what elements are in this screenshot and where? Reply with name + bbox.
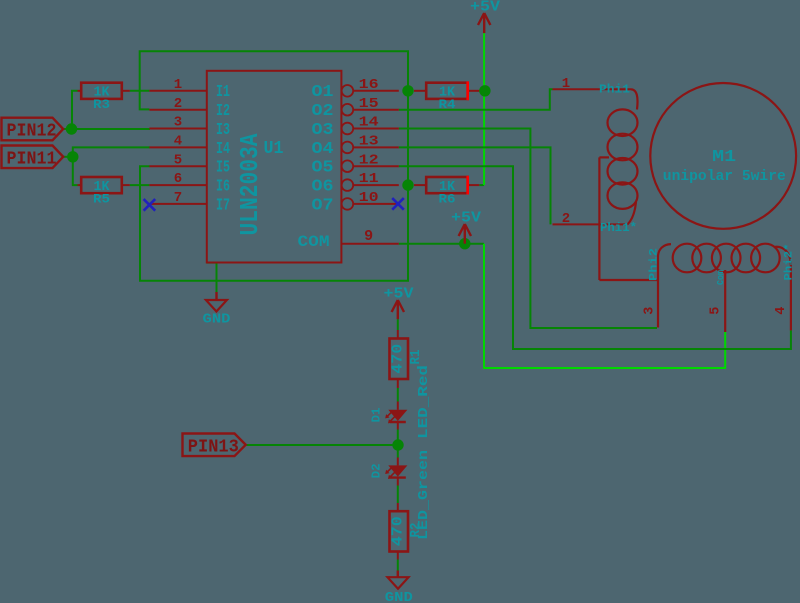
svg-text:470: 470 bbox=[391, 516, 407, 546]
svg-text:COM: COM bbox=[298, 233, 330, 251]
ground at bottom of LED chain bbox=[385, 571, 413, 603]
svg-text:Com: Com bbox=[716, 269, 726, 285]
svg-text:unipolar 5wire: unipolar 5wire bbox=[663, 169, 786, 185]
svg-text:O2: O2 bbox=[312, 102, 334, 121]
svg-text:1: 1 bbox=[562, 76, 570, 92]
global label PIN13 bbox=[183, 434, 246, 458]
svg-text:3: 3 bbox=[642, 307, 657, 315]
svg-text:PIN12: PIN12 bbox=[7, 122, 57, 142]
svg-text:2: 2 bbox=[562, 211, 570, 227]
power +5V at LED chain bbox=[384, 286, 414, 320]
svg-text:10: 10 bbox=[359, 190, 379, 206]
svg-text:I5: I5 bbox=[216, 159, 230, 178]
svg-text:LED_Red: LED_Red bbox=[416, 365, 432, 439]
junction node at PIN12 / pin3 bbox=[66, 123, 77, 134]
wire: bright +5V vertical from top power symbol through R4 junction to R6 bbox=[483, 33, 485, 185]
U1 COM pin 9 bbox=[341, 228, 398, 245]
no-connect X on pin 10 bbox=[392, 198, 404, 210]
junction node at O6 row left of R6 bbox=[402, 179, 413, 190]
motor coil A pin 2 bbox=[553, 211, 638, 235]
svg-text:PIN11: PIN11 bbox=[7, 149, 57, 169]
svg-text:16: 16 bbox=[359, 77, 379, 93]
power +5V top bbox=[470, 0, 500, 33]
wire: R5 right to pin6 bbox=[130, 184, 150, 186]
wire: R6 right stub to +5V column bbox=[479, 184, 484, 186]
motor coil A (vertical) with center tap bbox=[599, 89, 637, 280]
svg-text:1: 1 bbox=[174, 77, 182, 93]
svg-text:O6: O6 bbox=[312, 178, 334, 197]
svg-text:470: 470 bbox=[391, 344, 407, 374]
svg-text:GND: GND bbox=[385, 590, 413, 603]
wire: LED chain vertical segments bbox=[397, 319, 399, 570]
wire: R3 right to pin1 bbox=[130, 90, 150, 92]
resistor R4 1K bbox=[414, 81, 479, 112]
wire: PIN13 to LED junction bbox=[247, 444, 397, 446]
power +5V at COM bbox=[451, 210, 481, 244]
motor coil B (horizontal) with center tap, connecting from coil A bottom bbox=[599, 244, 791, 281]
wire: IC GND pin 8 down to ground bbox=[207, 263, 217, 292]
resistor R6 1K bbox=[414, 176, 479, 207]
resistor R3 1K bbox=[78, 83, 130, 112]
svg-text:3: 3 bbox=[174, 115, 182, 131]
motor coil A pin 1 bbox=[553, 76, 632, 96]
svg-text:I4: I4 bbox=[216, 140, 230, 159]
resistor R5 1K bbox=[78, 177, 130, 207]
wire: junction column down from O1/O6 junctions, across bottom, up to pin I5 bbox=[140, 91, 408, 281]
U1 left pins 1-7 with numbers and names bbox=[149, 77, 230, 215]
svg-text:Phi2: Phi2 bbox=[649, 248, 661, 281]
svg-text:PIN13: PIN13 bbox=[188, 437, 239, 457]
svg-text:I7: I7 bbox=[216, 196, 230, 215]
svg-text:ULN2003A: ULN2003A bbox=[235, 133, 265, 235]
svg-text:Phi1: Phi1 bbox=[599, 82, 630, 96]
svg-text:M1: M1 bbox=[712, 148, 736, 167]
LED D2 bbox=[371, 458, 408, 486]
wire: PIN11 to pin4 and down to R5 left bbox=[63, 147, 150, 185]
motor M1 body circle bbox=[650, 83, 796, 229]
svg-text:O4: O4 bbox=[312, 140, 334, 159]
svg-text:5: 5 bbox=[174, 152, 182, 168]
svg-text:14: 14 bbox=[359, 115, 379, 131]
svg-text:9: 9 bbox=[364, 228, 373, 245]
svg-text:I6: I6 bbox=[216, 178, 230, 197]
svg-text:12: 12 bbox=[359, 152, 379, 168]
label LED_Green bbox=[416, 450, 432, 540]
junction node at O1 row left of R4 bbox=[402, 85, 413, 96]
svg-text:R1: R1 bbox=[409, 350, 424, 365]
svg-text:GND: GND bbox=[203, 312, 231, 328]
svg-text:6: 6 bbox=[174, 171, 182, 187]
wire: bright +5V run from COM junction down and right to motor pin 5 bbox=[484, 244, 725, 368]
wire: O5 row down to motor pin 4 bbox=[399, 166, 791, 349]
svg-text:4: 4 bbox=[774, 307, 789, 315]
svg-text:D2: D2 bbox=[371, 463, 384, 478]
svg-text:4: 4 bbox=[174, 134, 182, 150]
svg-text:O5: O5 bbox=[312, 159, 334, 178]
motor coil B pin 3 bbox=[642, 248, 660, 328]
svg-text:O1: O1 bbox=[312, 83, 334, 102]
global label PIN11 bbox=[2, 146, 64, 170]
svg-text:D1: D1 bbox=[371, 407, 384, 422]
svg-text:5: 5 bbox=[708, 307, 723, 315]
label LED_Red bbox=[416, 365, 432, 439]
wire: R4 right stub to +5V column bbox=[479, 90, 484, 92]
svg-text:R2: R2 bbox=[409, 523, 424, 538]
svg-text:O7: O7 bbox=[312, 196, 334, 215]
resistor R2 470 (vertical) bbox=[390, 503, 425, 560]
wire: O2 row to motor coil pin 1 bbox=[399, 89, 553, 109]
svg-text:R4: R4 bbox=[439, 97, 456, 112]
svg-text:13: 13 bbox=[359, 134, 379, 150]
svg-text:I3: I3 bbox=[216, 121, 230, 140]
junction node at COM / +5V bbox=[459, 238, 470, 249]
svg-text:2: 2 bbox=[174, 96, 182, 112]
U1 right pins 16-10 with inversion bubbles, numbers and names bbox=[312, 77, 399, 215]
no-connect X on pin 7 bbox=[144, 199, 156, 211]
motor coil B pin 4 bbox=[774, 244, 795, 331]
junction node at R4 right / +5V bbox=[479, 85, 490, 96]
wire: top-left loop from pin2 up and across to output junction column bbox=[140, 51, 408, 109]
svg-text:I2: I2 bbox=[216, 102, 230, 121]
svg-text:11: 11 bbox=[359, 171, 379, 187]
svg-text:15: 15 bbox=[359, 96, 379, 112]
svg-text:O3: O3 bbox=[312, 121, 334, 140]
wire: PIN12 to pin3 and up to R3 left bbox=[63, 91, 150, 129]
svg-text:Phi1*: Phi1* bbox=[600, 221, 637, 235]
wire: O4 row down to motor coil pin 2 bbox=[399, 147, 551, 224]
junction node at PIN11 / pin4 bbox=[67, 151, 78, 162]
motor coil B pin 5 (center tap) bbox=[708, 269, 726, 332]
svg-text:R5: R5 bbox=[93, 192, 110, 207]
LED D1 bbox=[371, 402, 408, 430]
IC U1 ULN2003A body bbox=[207, 71, 342, 263]
wire: COM pin 9 to +5V junction bbox=[399, 243, 484, 245]
svg-text:R3: R3 bbox=[93, 97, 110, 112]
junction node at PIN13 / LEDs bbox=[392, 439, 403, 450]
svg-text:Phi2*: Phi2* bbox=[784, 244, 796, 281]
global label PIN12 bbox=[2, 118, 64, 142]
resistor R1 470 (vertical) bbox=[390, 330, 425, 388]
svg-text:U1: U1 bbox=[264, 139, 284, 159]
svg-text:7: 7 bbox=[174, 190, 182, 206]
svg-text:R6: R6 bbox=[439, 192, 456, 207]
wire: O3 row down to motor pin 3 bbox=[399, 129, 657, 329]
ground under U1 bbox=[203, 292, 231, 328]
svg-text:I1: I1 bbox=[216, 83, 230, 102]
